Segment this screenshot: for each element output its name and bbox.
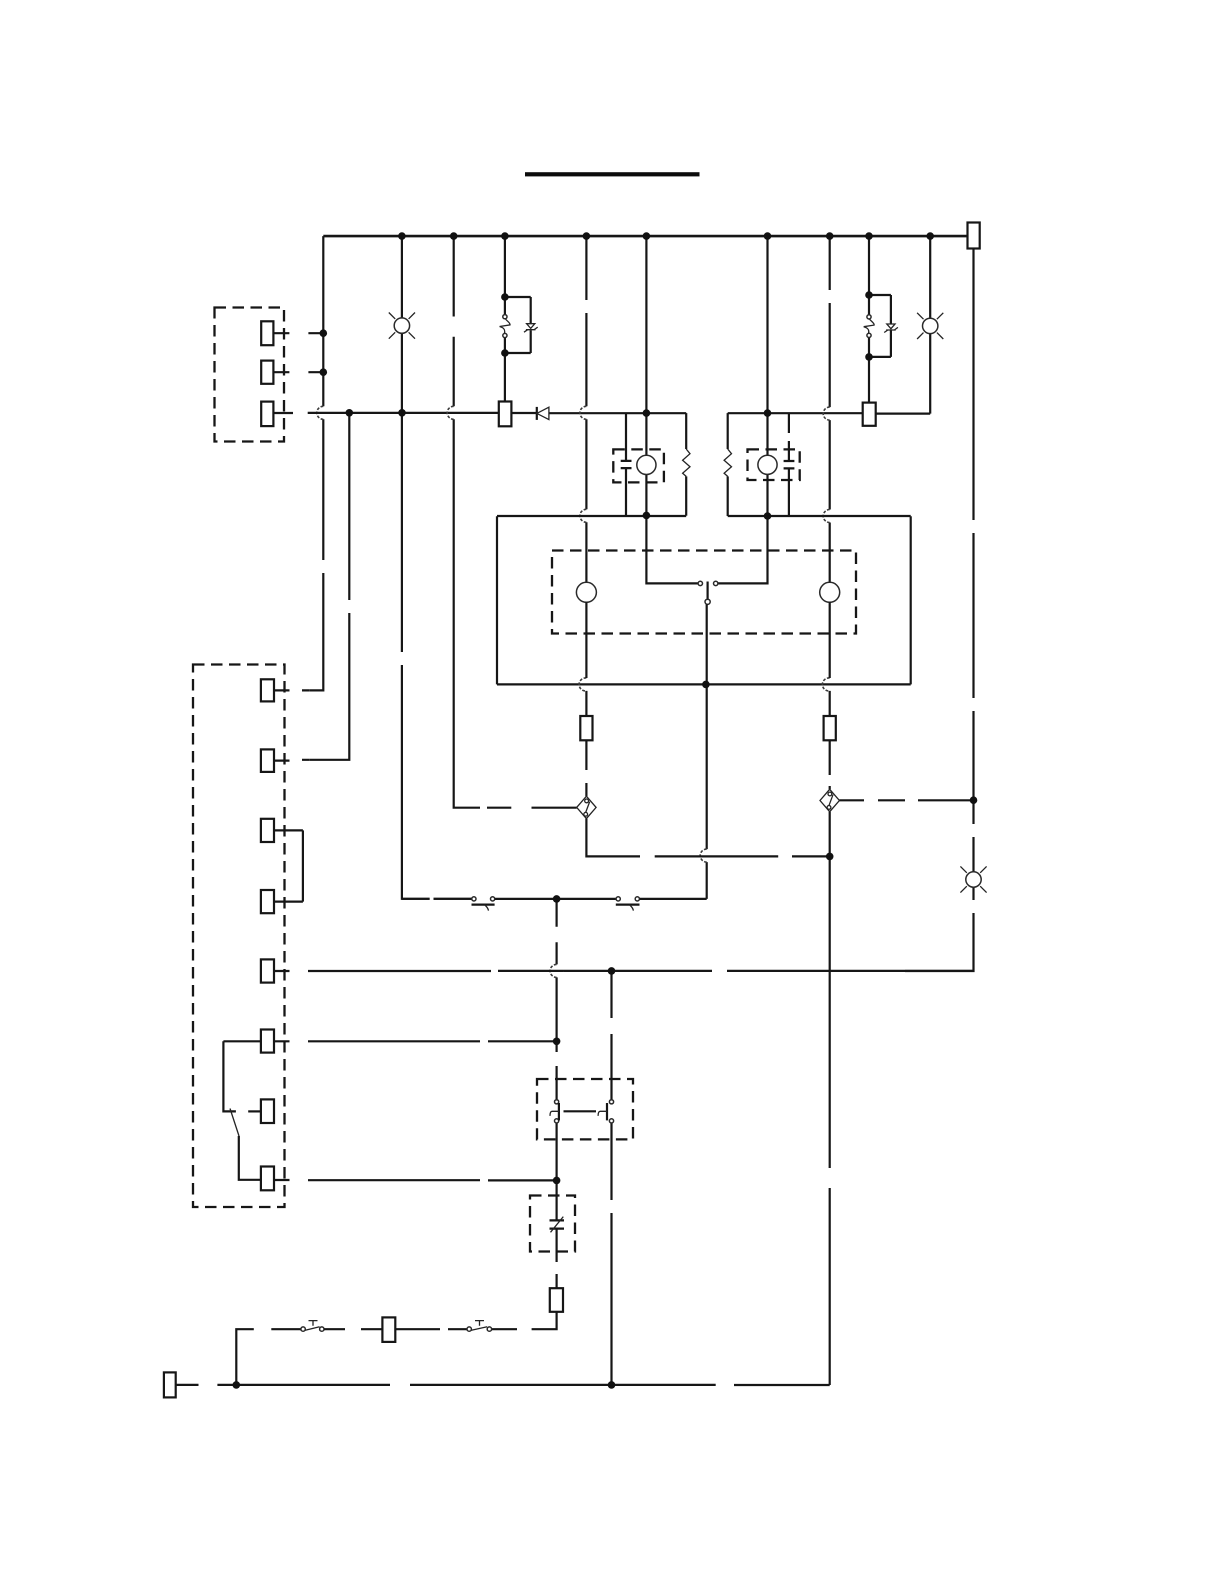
wire pin6 long (y=1041) [274, 1040, 557, 1042]
diode D2 (in feed line) [536, 407, 538, 420]
pin B [261, 361, 273, 384]
wire pin5 long (y=971) [274, 970, 974, 972]
wire hop at (706.5,855.6) [700, 849, 706, 862]
wire pin C stub [273, 412, 293, 414]
pin C [261, 402, 273, 427]
motor M1 (left) [645, 236, 647, 515]
lamp L2 (right indicator) [929, 236, 931, 414]
wire riser to pushbutton row [236, 1329, 301, 1385]
diode D1 [524, 324, 538, 333]
breaker TP2 (diamond) [820, 789, 839, 811]
terminal E2 (bottom left) [164, 1372, 176, 1397]
capacitor C1 [625, 413, 627, 516]
thermal cutout TH1 element [550, 1180, 565, 1288]
connector CN1 (top-left, dashed) [215, 308, 285, 442]
wire hop at (557,971) [550, 964, 557, 977]
resistor R4 [824, 716, 836, 740]
pin 2 [261, 749, 274, 772]
capacitor C2 [788, 414, 790, 516]
wire TP1 bottom to cross-link [586, 819, 829, 857]
link (ganged) [564, 1110, 597, 1112]
wire: column x=611.5 down [610, 971, 612, 1385]
pin A [261, 321, 273, 345]
pin 6 [261, 1030, 274, 1053]
node B+ top bus [323, 235, 967, 238]
lamp L1 (left indicator) [401, 236, 403, 413]
fuse F3 [382, 1317, 395, 1342]
pin 5 [261, 959, 274, 982]
contact P2 (right circle) [820, 582, 840, 602]
wire TP2 bottom down to ground rail [829, 812, 831, 1385]
relay K1 contact a [555, 1100, 559, 1104]
breaker TP1 (diamond) [577, 796, 596, 818]
terminal E1 (top right) [968, 223, 980, 249]
connector CN2 (left tall dashed box) [193, 665, 285, 1208]
wire: column x=830 (bus down) [829, 236, 831, 582]
pushbutton PB2 [467, 1327, 471, 1331]
wire: relay column x=557 down [555, 899, 557, 1181]
suppressor box M2 (dashed) [748, 449, 800, 480]
wire hops x=830 at y=413.6 and y=516 [823, 407, 829, 522]
lamp L3 (right lower) [905, 800, 974, 971]
switch SW2 (NC limit) [472, 897, 476, 901]
wire hop at (323,412.8) [317, 406, 324, 419]
title rule (redacted heading) [525, 172, 700, 176]
wire: column x=586 (bus down) [585, 236, 587, 582]
fuse F2 [868, 357, 870, 403]
diode D3 [884, 324, 898, 333]
suppressor box M1 (dashed) [613, 449, 664, 482]
wire pin A stub [273, 332, 323, 334]
motor M2 (right) [766, 236, 768, 516]
resistor R5 [550, 1288, 563, 1312]
wire x=830 contact down [829, 602, 831, 716]
wire R5 to pushbutton row [492, 1312, 557, 1329]
switch unit SW1 (dashed box, middle) [552, 551, 856, 634]
wire: left bus drop x=323 [310, 236, 324, 690]
wire pin8 long (y=1180) [274, 1179, 557, 1182]
resistor R2 [727, 413, 729, 449]
selector contact K0 [698, 581, 702, 585]
wire: lamp L1 down to switch row [402, 413, 472, 899]
pin 7 [261, 1099, 274, 1123]
wire: branch x=349 (pin 2 feeder) [310, 413, 350, 760]
relay K1 contacts (dashed box) [537, 1079, 633, 1139]
relay K1 contact b [609, 1100, 613, 1104]
wire TP2 right to feeder [839, 799, 973, 801]
pin 3 [261, 819, 274, 842]
wire switch row feed (y=899) [402, 898, 472, 900]
node ground rail (y=1385) [176, 1384, 830, 1386]
wire SW3 to selector column [640, 898, 707, 900]
resistor R1 [685, 413, 687, 449]
wire: right feeder from terminal E1 down [972, 249, 974, 801]
resistor R3 [580, 716, 592, 740]
fuse F1 [504, 353, 506, 402]
node main feed H1 (y=413) [308, 412, 931, 415]
pin 1 [261, 679, 274, 701]
wire hops x=586 at y=413 and y=516 [580, 406, 587, 522]
pin 8 [261, 1167, 274, 1191]
node loop right riser x=911 [910, 516, 912, 684]
wire selector common down [706, 604, 708, 899]
pin 4 [261, 890, 274, 913]
wire loop top-left (y=516) [497, 515, 686, 517]
wire: column x=454 (bus to thermostat S3) [454, 236, 577, 808]
wire M1 to selector [646, 515, 698, 583]
wire loop top-right (y=516) [728, 515, 911, 517]
pushbutton PB1 [301, 1327, 305, 1331]
wire x=586 contact down [585, 602, 587, 716]
wire hops on loop bottom at x=586 and x=830 [579, 678, 830, 691]
node loop left riser x=497 [496, 516, 498, 684]
wire hop at (454,412.8) [447, 406, 454, 419]
protector S1 with diode D1 (left) [504, 236, 506, 297]
switch SW4 (in connector) [223, 1041, 261, 1111]
wire loop bottom (y=684) [497, 683, 911, 685]
wire SW2 to SW3 [495, 898, 616, 900]
protector S2 with diode D3 (right) [868, 236, 870, 295]
wire pin B stub [273, 371, 323, 373]
switch SW3 (NC limit) [616, 897, 620, 901]
contact P1 (left circle) [576, 582, 596, 602]
wire M2 to selector [718, 516, 768, 583]
thermal cutout TH1 (dashed box) [530, 1196, 575, 1252]
